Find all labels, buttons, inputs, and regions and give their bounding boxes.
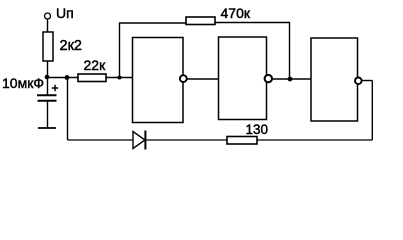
svg-text:22к: 22к <box>84 57 107 73</box>
svg-text:10мкФ: 10мкФ <box>2 75 44 91</box>
svg-text:Uп: Uп <box>56 5 74 21</box>
svg-text:470к: 470к <box>221 5 251 21</box>
svg-text:130: 130 <box>246 122 269 137</box>
svg-text:2к2: 2к2 <box>60 38 82 54</box>
